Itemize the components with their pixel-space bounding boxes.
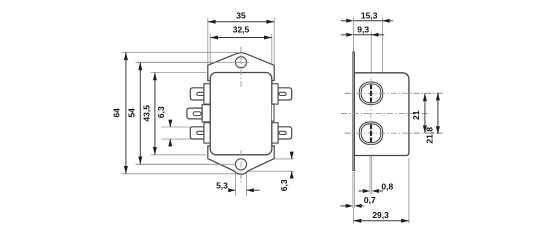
dimension 9,3 (341, 25, 384, 37)
centrelines over part (side view) (341, 78, 443, 148)
terminal boss bottom (side view) (359, 122, 382, 145)
bottom mounting flange (208, 146, 274, 174)
terminal blade edge top (side view) (370, 85, 373, 103)
svg-text:0,8: 0,8 (381, 181, 393, 191)
dimension 6,3 left (156, 106, 172, 147)
dimension 21 (411, 93, 427, 133)
dimension 5,3 (216, 181, 260, 193)
terminal tab right bottom (271, 123, 292, 143)
top mounting hole (235, 57, 246, 68)
svg-text:54: 54 (126, 108, 136, 118)
dimension 35 (208, 10, 274, 23)
dimension 64 (112, 52, 128, 174)
extension/centre lines (side view, light) (341, 17, 443, 223)
right-side rib between terminals (272, 104, 274, 121)
dimension 54 (126, 62, 142, 164)
dimension 6,3 right (279, 151, 294, 191)
mounting bracket plate (side view) (353, 52, 355, 171)
terminal tab left middle (187, 105, 211, 122)
extension lines (front view, light) (122, 18, 295, 196)
filter body (front view) (210, 73, 272, 155)
dimension 29,3 (354, 210, 409, 223)
terminal boss top (side view) (359, 82, 382, 105)
bottom mounting hole (235, 159, 246, 170)
terminal tab right top (271, 84, 292, 104)
terminal tab left top (190, 84, 211, 104)
dimension 32,5 (210, 25, 272, 40)
dimension 0,8 (359, 181, 394, 193)
svg-text:35: 35 (236, 10, 246, 20)
svg-text:21,8: 21,8 (424, 127, 434, 144)
top mounting flange (208, 53, 274, 81)
svg-text:5,3: 5,3 (216, 181, 228, 191)
dimension 15,3 (341, 11, 393, 23)
svg-text:43,5: 43,5 (141, 105, 151, 122)
dimension 43,5 (141, 73, 157, 155)
svg-text:0,7: 0,7 (364, 195, 376, 205)
terminal blade edge bottom (side view) (370, 125, 373, 143)
svg-text:9,3: 9,3 (357, 25, 369, 35)
terminal tab left bottom (190, 123, 211, 143)
dimension 21,8 (424, 93, 440, 144)
svg-text:21: 21 (411, 110, 421, 120)
filter body (side view) (354, 73, 409, 156)
svg-text:32,5: 32,5 (233, 25, 250, 35)
centerline vertical top (front view) (240, 47, 242, 184)
dimension 0,7 (340, 195, 376, 208)
svg-text:29,3: 29,3 (372, 210, 389, 220)
svg-text:15,3: 15,3 (361, 11, 378, 21)
svg-text:6,3: 6,3 (279, 179, 289, 191)
centrelines over part (front view) (136, 47, 250, 184)
svg-text:6,3: 6,3 (156, 106, 166, 118)
svg-text:64: 64 (112, 108, 122, 118)
